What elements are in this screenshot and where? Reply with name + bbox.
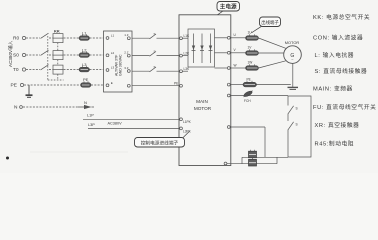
svg-text:S: S bbox=[296, 123, 298, 127]
svg-text:1.1': 1.1' bbox=[124, 33, 129, 37]
svg-text:PE: PE bbox=[174, 82, 178, 86]
svg-text:N: N bbox=[84, 100, 87, 105]
svg-text:L3K: L3K bbox=[184, 67, 191, 71]
svg-text:2.1': 2.1' bbox=[124, 50, 129, 54]
svg-text:1W: 1W bbox=[248, 60, 253, 64]
svg-text:XR: 真空接触器: XR: 真空接触器 bbox=[315, 121, 360, 129]
svg-text:L2K: L2K bbox=[184, 51, 191, 55]
svg-text:PE: PE bbox=[11, 83, 17, 89]
svg-text:MAIN: 变频器: MAIN: 变频器 bbox=[313, 85, 353, 93]
svg-text:L1: L1 bbox=[111, 34, 115, 38]
svg-text:S: S bbox=[154, 32, 156, 36]
svg-text:L1PK: L1PK bbox=[183, 120, 192, 124]
svg-text:S: S bbox=[296, 107, 298, 111]
svg-text:主电源: 主电源 bbox=[220, 3, 237, 11]
svg-text:CON: 输入滤波器: CON: 输入滤波器 bbox=[313, 34, 363, 42]
svg-text:MOTOR: MOTOR bbox=[285, 40, 300, 45]
svg-text:R0: R0 bbox=[13, 36, 19, 42]
svg-text:PE: PE bbox=[247, 77, 251, 81]
svg-text:3.1': 3.1' bbox=[124, 66, 129, 70]
svg-text:AC380V输入: AC380V输入 bbox=[7, 40, 14, 67]
svg-text:MOTOR: MOTOR bbox=[194, 106, 212, 111]
svg-text:KK: 电源总空气开关: KK: 电源总空气开关 bbox=[313, 13, 370, 21]
svg-text:R45:制动电阻: R45:制动电阻 bbox=[315, 140, 355, 148]
svg-text:L3: L3 bbox=[111, 66, 115, 70]
svg-text:L2: L2 bbox=[82, 48, 87, 53]
svg-text:S0: S0 bbox=[13, 53, 19, 59]
svg-text:FCH: FCH bbox=[244, 99, 251, 103]
svg-text:出线端子: 出线端子 bbox=[261, 19, 279, 26]
svg-text:FU: 直流母线空气开关: FU: 直流母线空气开关 bbox=[313, 103, 376, 111]
svg-text:AC380V: AC380V bbox=[108, 121, 123, 125]
svg-text:S: S bbox=[154, 65, 156, 69]
svg-text:W: W bbox=[234, 63, 237, 67]
svg-text:N: N bbox=[14, 105, 18, 111]
svg-text:L1P: L1P bbox=[87, 113, 94, 117]
svg-text:E: E bbox=[111, 81, 113, 85]
svg-text:S: S bbox=[154, 50, 156, 54]
svg-text:L3P: L3P bbox=[88, 123, 95, 127]
svg-text:T0: T0 bbox=[13, 67, 19, 73]
svg-text:L3: L3 bbox=[82, 62, 87, 67]
svg-text:L3PK: L3PK bbox=[183, 129, 192, 133]
svg-text:控制电源进线端子: 控制电源进线端子 bbox=[141, 139, 179, 146]
svg-text:1U: 1U bbox=[248, 30, 253, 34]
svg-text:L1K: L1K bbox=[184, 34, 191, 38]
svg-text:PE: PE bbox=[83, 77, 89, 82]
svg-text:S: 直流母线接触器: S: 直流母线接触器 bbox=[315, 67, 368, 75]
svg-text:L: 输入电抗器: L: 输入电抗器 bbox=[315, 51, 355, 59]
svg-text:MAIN: MAIN bbox=[196, 99, 208, 104]
svg-text:L2: L2 bbox=[111, 51, 115, 55]
svg-text:KK: KK bbox=[54, 28, 60, 33]
svg-text:GND 380VAC: GND 380VAC bbox=[119, 54, 123, 76]
svg-text:L1: L1 bbox=[82, 31, 87, 36]
